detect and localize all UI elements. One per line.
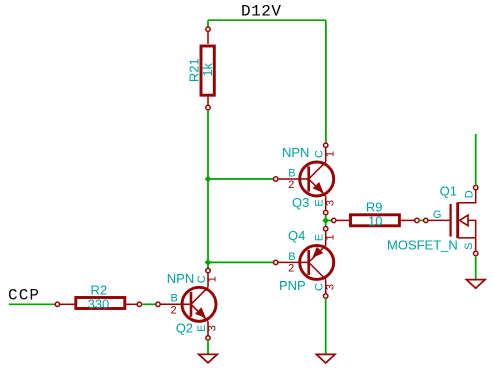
wire R2 to Q2 base — [142, 303, 156, 305]
svg-text:1: 1 — [207, 276, 219, 282]
wire Q1 source down — [475, 256, 477, 279]
wire top rail right drop to Q3 collector — [325, 20, 327, 143]
svg-text:MOSFET_N: MOSFET_N — [387, 238, 458, 253]
ground middle — [316, 354, 335, 363]
svg-text:2: 2 — [170, 305, 176, 317]
ground right — [466, 280, 485, 289]
svg-text:CCP: CCP — [8, 287, 39, 305]
wire vertical bus — [207, 110, 209, 269]
svg-text:S: S — [463, 243, 475, 250]
svg-text:3: 3 — [324, 284, 336, 290]
svg-text:R2: R2 — [91, 283, 108, 298]
svg-text:PNP: PNP — [279, 278, 306, 293]
resistor R2 — [55, 298, 141, 309]
svg-text:D12V: D12V — [241, 3, 281, 21]
svg-text:Q1: Q1 — [440, 183, 457, 198]
svg-text:NPN: NPN — [167, 271, 194, 286]
svg-text:1: 1 — [324, 151, 336, 157]
wire Q4 collector to ground — [325, 298, 327, 354]
wire top rail horizontal — [208, 19, 326, 21]
svg-text:B: B — [288, 167, 295, 179]
svg-text:B: B — [288, 251, 295, 263]
junction B — [322, 217, 329, 224]
svg-text:D: D — [463, 190, 475, 198]
svg-text:Q4: Q4 — [288, 228, 305, 243]
svg-text:330: 330 — [88, 297, 110, 312]
ground left — [199, 354, 218, 363]
svg-text:G: G — [433, 209, 442, 221]
svg-text:3: 3 — [324, 200, 336, 206]
transistor Q3 — [274, 143, 334, 215]
junction A — [205, 176, 212, 183]
svg-text:1k: 1k — [200, 62, 215, 76]
resistor R9 — [332, 215, 420, 226]
svg-text:2: 2 — [288, 179, 294, 191]
resistor R21 — [201, 27, 214, 110]
transistor Q1 MOSFET_N — [424, 185, 478, 255]
svg-text:NPN: NPN — [282, 145, 309, 160]
svg-text:R9: R9 — [366, 200, 383, 215]
wire CCP to R2 — [9, 303, 55, 305]
svg-text:3: 3 — [207, 325, 219, 331]
wire R9 to Q1 gate — [419, 219, 424, 221]
wire Q1 drain up — [475, 134, 477, 185]
wire Q2 emitter to ground — [207, 340, 209, 354]
svg-text:Q3: Q3 — [292, 195, 309, 210]
svg-text:10: 10 — [368, 213, 382, 228]
svg-text:1: 1 — [324, 234, 336, 240]
transistor Q4 PNP — [274, 227, 334, 299]
junction C — [205, 259, 212, 266]
wire node to R9 — [326, 220, 332, 222]
transistor Q2 — [156, 268, 216, 340]
wire to Q3 base — [208, 178, 273, 180]
wire Q3 emitter to node — [325, 215, 327, 227]
svg-text:Q2: Q2 — [176, 321, 193, 336]
svg-text:B: B — [171, 293, 178, 305]
svg-text:2: 2 — [288, 263, 294, 275]
svg-text:R21: R21 — [186, 58, 201, 82]
wire stub to R21 top — [207, 20, 209, 27]
wire to Q4 base — [208, 261, 273, 263]
